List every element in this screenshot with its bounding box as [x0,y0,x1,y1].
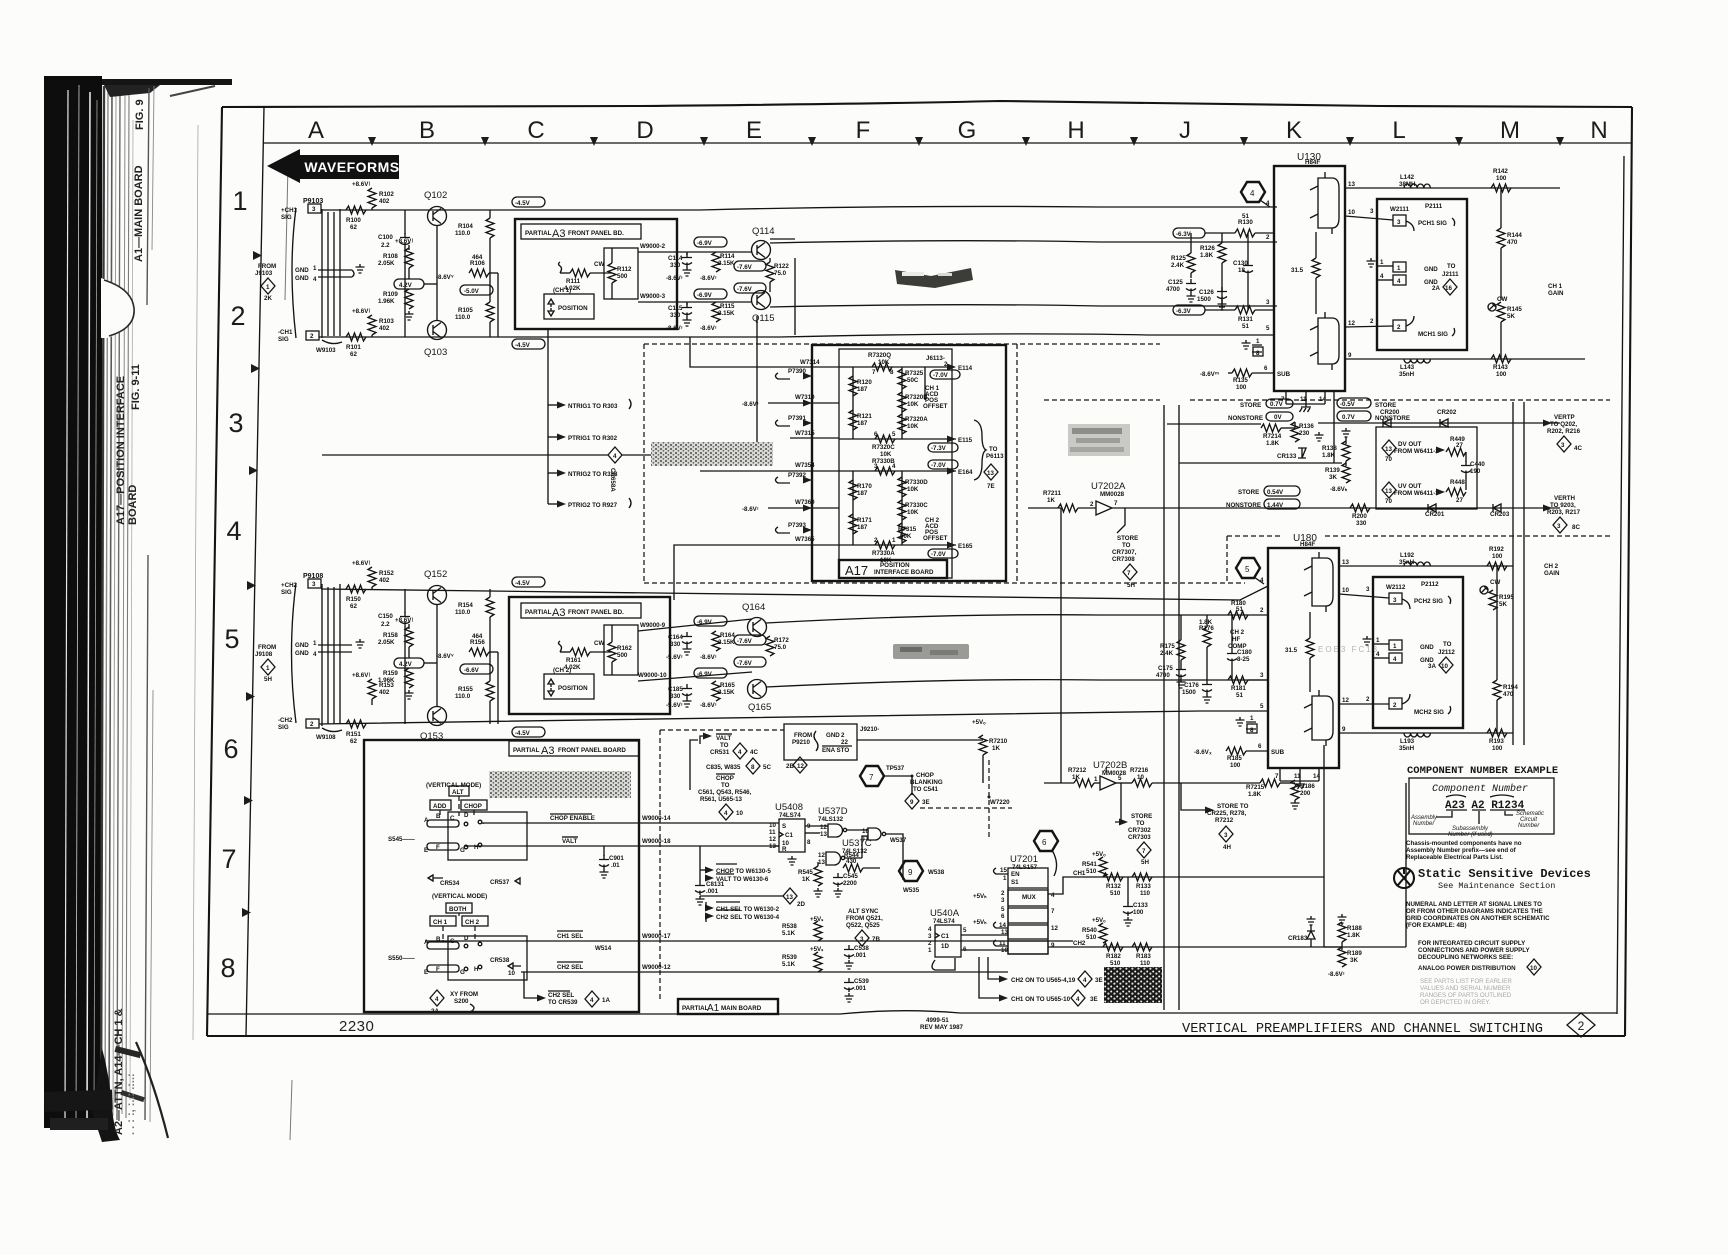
svg-text:3: 3 [1001,897,1005,904]
svg-text:3: 3 [1266,299,1270,306]
svg-text:8: 8 [807,839,811,846]
svg-text:10: 10 [862,828,869,835]
svg-text:100: 100 [1496,175,1507,182]
svg-text:E164: E164 [958,469,973,476]
svg-text:R126: R126 [1200,245,1215,252]
CH2 row [961,917,1406,947]
section: U130 + P2111 [1166,152,1585,422]
transistor Q102 [424,190,447,226]
svg-text:R541: R541 [1082,861,1097,868]
svg-text:4: 4 [590,997,594,1004]
svg-text:GND: GND [295,267,309,274]
svg-text:3: 3 [312,581,316,588]
svg-text:A3: A3 [541,745,554,757]
svg-text:62: 62 [350,738,357,745]
svg-text:R186: R186 [1300,783,1315,790]
static sensitive [1394,867,1591,891]
svg-text:51: 51 [1236,692,1243,699]
svg-text:-7.3V: -7.3V [931,445,947,452]
A17 inner board [839,349,952,578]
node -4.5V top [512,197,545,207]
svg-text:R7330D: R7330D [905,479,928,486]
resistor R136 [1291,422,1314,442]
svg-text:C180: C180 [1237,649,1252,656]
svg-text:F: F [856,117,871,144]
svg-text:35nH: 35nH [1399,371,1415,378]
svg-text:.001: .001 [854,985,867,992]
svg-text:R142: R142 [1493,168,1508,175]
svg-text:CHOP: CHOP [716,775,734,782]
svg-text:R138: R138 [1322,445,1337,452]
svg-text:402: 402 [379,198,390,205]
svg-text:FIG. 9-11: FIG. 9-11 [130,364,142,410]
U130 internal bottom half [1310,312,1339,370]
svg-text:-8.6Vʴ: -8.6Vʴ [742,401,759,408]
svg-text:F: F [436,844,440,851]
resistor R7330C [898,500,928,520]
svg-text:CH2 SEL TO W6130-4: CH2 SEL TO W6130-4 [716,914,780,921]
store sense box [1376,427,1477,509]
svg-text:CR201: CR201 [1425,511,1445,518]
capacitor C8131 [695,846,725,905]
svg-text:8: 8 [220,953,235,983]
signal VERTP [1543,414,1582,452]
svg-text:110: 110 [1140,890,1151,897]
svg-text:187: 187 [857,524,868,531]
svg-text:(CH 2): (CH 2) [553,667,571,674]
svg-text:-7.0V: -7.0V [931,462,947,469]
svg-text:A: A [308,117,324,144]
board label [509,741,639,757]
svg-text:12: 12 [1342,697,1349,704]
svg-text:TO: TO [1122,542,1131,549]
svg-text:J: J [1179,117,1191,144]
svg-text:100: 100 [1492,553,1503,560]
wire R7214 feed [1167,391,1342,463]
svg-text:CH2 SEL: CH2 SEL [548,992,574,999]
svg-text:510: 510 [1110,960,1121,967]
svg-text:-4.5V: -4.5V [515,730,531,737]
svg-text:4: 4 [724,810,728,817]
switch S545 [388,812,527,860]
svg-text:12: 12 [1051,925,1058,932]
svg-text:51: 51 [1236,606,1243,613]
svg-text:9: 9 [910,799,914,806]
inductor L192 [1399,552,1430,566]
W9000-9 wire [638,619,752,631]
svg-text:-4.5V: -4.5V [515,200,531,207]
resistor R115 [712,302,735,322]
svg-text:200: 200 [1300,790,1311,797]
svg-text:FROM: FROM [258,644,276,651]
svg-text:13: 13 [987,470,994,477]
svg-text:4: 4 [1397,278,1401,285]
svg-text:R193: R193 [1489,738,1504,745]
svg-text:CR225, R278,: CR225, R278, [1207,810,1246,817]
svg-text:+5Vₒ: +5Vₒ [1092,851,1106,858]
svg-text:R172: R172 [774,637,789,644]
svg-text:-8.6V ₓ: -8.6V ₓ [1194,749,1212,756]
svg-text:3: 3 [1393,597,1397,604]
NONSTORE 0V oval [1228,412,1293,422]
svg-text:OR DEPICTED IN GREY.: OR DEPICTED IN GREY. [1420,999,1491,1006]
svg-text:-CH1: -CH1 [278,329,293,336]
svg-text:1K: 1K [1047,497,1055,504]
+5VG R7210 [857,719,1008,783]
svg-text:R144: R144 [1507,232,1522,239]
svg-text:R181: R181 [1231,685,1246,692]
main frame [207,101,1632,1036]
svg-text:R7320C: R7320C [872,444,895,451]
svg-text:VALT: VALT [716,735,731,742]
wires U540A to U7201 [961,935,1008,950]
bus Q165 to U180 [766,680,1268,687]
capacitor C100 [378,210,410,337]
svg-text:-8.6Vʴ: -8.6Vʴ [700,702,717,709]
svg-text:CR133: CR133 [1277,453,1297,460]
svg-text:0V: 0V [1274,414,1282,421]
svg-text:UV OUT: UV OUT [1398,483,1422,490]
from P9210 box [784,724,857,773]
pin6 SUB / R135 [1200,365,1291,391]
svg-text:P6113: P6113 [986,453,1004,460]
svg-text:5: 5 [1245,565,1250,574]
svg-text:STORE: STORE [1117,535,1138,542]
svg-text:POSITION: POSITION [558,685,588,692]
svg-text:1.44V: 1.44V [1267,502,1284,509]
svg-text:74LS132: 74LS132 [818,816,844,823]
pot R145 CH1 GAIN [1488,283,1564,359]
bottom title [339,1013,1595,1037]
svg-text:TO 9203,: TO 9203, [1550,502,1576,509]
diode CR538 [490,957,521,977]
svg-text:FOR INTEGRATED CIRCUIT SUPPLY: FOR INTEGRATED CIRCUIT SUPPLY [1418,940,1526,947]
svg-text:INTERFACE BOARD: INTERFACE BOARD [874,569,934,576]
svg-text:402: 402 [379,325,390,332]
connector P7393 [776,522,813,534]
svg-text:-4.5V: -4.5V [515,342,531,349]
svg-text:L192: L192 [1400,552,1415,559]
svg-text:-5.6Vʴ: -5.6Vʴ [666,702,683,709]
svg-text:5: 5 [1118,775,1122,782]
svg-text:2.05K: 2.05K [378,639,395,646]
svg-text:Chassis-mounted components hav: Chassis-mounted components have no [1406,840,1522,847]
svg-text:8C: 8C [1572,524,1580,531]
node -6.9V lower [694,668,727,678]
resistor R143 [1491,355,1511,378]
XY FROM S200 [430,990,478,1015]
board label [521,603,641,619]
svg-text:FROM: FROM [794,732,812,739]
svg-text:-5.0V: -5.0V [464,288,480,295]
svg-text:5: 5 [224,624,239,654]
capacitor C539 [844,978,869,1002]
svg-text:CW: CW [1490,579,1500,586]
resistor R126 [1200,233,1226,310]
svg-text:2: 2 [230,301,245,331]
svg-text:W7354: W7354 [795,462,815,469]
svg-text:9: 9 [1051,942,1055,949]
top rail ch2 [321,586,1268,600]
svg-text:R139: R139 [1325,467,1340,474]
bus Q115 to U130 pin3 [770,305,1277,307]
resistor R125 [1171,233,1195,278]
svg-text:402: 402 [379,577,390,584]
svg-text:3A: 3A [1428,663,1436,670]
W9000-3 wire [638,293,752,302]
double vertical bus K3-K8 [1164,405,1179,1010]
signal PTRIG2 [548,498,631,509]
wire pin13 [1345,187,1560,189]
svg-text:13: 13 [1342,559,1349,566]
svg-text:75.0: 75.0 [774,270,787,277]
W7220 [920,760,1012,840]
CH1 row [1048,851,1324,894]
resistor R7320B [898,392,928,412]
svg-text:2.4K: 2.4K [1171,262,1185,269]
svg-text:VERTH: VERTH [1554,495,1576,502]
hexagon 9 [899,861,945,894]
node -6.9V upper [694,616,727,626]
op-amp U7202B [1093,760,1127,790]
signal C835 W835 [706,758,771,774]
offset labels ch2 [923,517,948,542]
node -6.3V upper [1173,228,1205,238]
dashed boundary [1227,536,1610,583]
svg-text:OFFSET: OFFSET [923,535,948,542]
svg-text:4.2V: 4.2V [399,661,413,668]
resistor R106 [436,254,498,281]
svg-text:F: F [436,966,440,973]
svg-text:3: 3 [1561,442,1565,449]
capacitor C150 [378,589,410,724]
svg-text:1: 1 [266,284,270,291]
wire Q152-Q153 [436,605,438,706]
svg-text:A3: A3 [552,228,565,240]
svg-text:CR537: CR537 [490,879,510,886]
resistor R7330B [872,458,896,475]
svg-text:5: 5 [1260,703,1264,710]
svg-text:-4.5V: -4.5V [515,580,531,587]
svg-text:R183: R183 [1136,953,1151,960]
svg-text:5: 5 [1001,906,1005,913]
internal resistor 31.5 [1291,232,1320,314]
svg-text:W535: W535 [903,887,920,894]
svg-text:B: B [436,813,441,820]
svg-text:1: 1 [1256,338,1260,345]
svg-text:W538: W538 [928,869,945,876]
transistor Q153 [420,707,447,743]
svg-text:NUMERAL AND LETTER AT SIGNAL L: NUMERAL AND LETTER AT SIGNAL LINES TO [1406,901,1542,908]
resistor R7215 [1246,779,1295,798]
svg-text:6: 6 [874,431,878,438]
svg-text:7: 7 [1114,500,1118,507]
svg-text:CH 1: CH 1 [433,919,448,926]
resistor R7320Q [868,352,894,376]
resistor R131 [1205,306,1274,330]
svg-text:W7314: W7314 [800,359,820,366]
svg-text:2: 2 [1366,696,1370,703]
svg-text:FRONT PANEL BD.: FRONT PANEL BD. [568,609,624,616]
bottom border [207,1035,1625,1037]
capacitor C125 [1166,279,1196,302]
grid note [1406,901,1550,929]
svg-text:3: 3 [1260,672,1264,679]
section: ch1 input (A1-B2) [255,181,1277,358]
svg-text:CH 1: CH 1 [1548,283,1563,290]
resistor R182 [1103,943,1123,967]
svg-text:100: 100 [1230,762,1241,769]
svg-text:TO: TO [721,782,730,789]
svg-text:12: 12 [1348,320,1355,327]
signal PTRIG1 [548,434,618,443]
svg-text:2: 2 [1397,324,1401,331]
W9000-10 wire [638,672,752,681]
resistor R539 [782,946,824,972]
node -4.5V bottom [512,339,545,349]
resistor R193 [1487,729,1507,752]
internal resistor 31.5 [1285,612,1314,692]
resistor R7330A [872,537,896,564]
pin 1/8 stubs [1236,715,1258,734]
node -4.5V bottom [512,727,545,737]
svg-text:PTRIG1 TO R302: PTRIG1 TO R302 [568,435,618,442]
svg-text:50K: 50K [900,533,912,540]
section: bottom-left A3 mode board [364,740,1073,1015]
svg-text:4700: 4700 [1166,286,1180,293]
svg-text:R7214: R7214 [1263,433,1282,440]
signal CH1 ON [979,957,1098,1006]
svg-text:470: 470 [1503,691,1514,698]
svg-text:4: 4 [226,516,241,546]
-0.5V STORE oval [1337,398,1396,409]
0.7V NONSTORE oval [1337,411,1410,422]
wire Q102-Q103 [436,226,438,321]
svg-text:GND: GND [826,732,840,739]
svg-text:R202, R216: R202, R216 [1547,428,1581,435]
svg-text:R158: R158 [383,632,398,639]
svg-text:3: 3 [874,463,878,470]
resistor R183 [1132,943,1152,967]
resistor R151 [346,720,366,745]
svg-text:1500: 1500 [1182,689,1196,696]
svg-text:8: 8 [751,764,755,771]
resistor R176 [1199,615,1214,680]
svg-text:ALT: ALT [452,789,464,796]
svg-text:CR202: CR202 [1437,409,1457,416]
svg-text:4: 4 [1393,656,1397,663]
svg-text:CR534: CR534 [440,880,460,887]
svg-text:-6.9V: -6.9V [697,240,713,247]
svg-text:10: 10 [769,822,776,829]
svg-text:R189: R189 [1347,950,1362,957]
svg-text:3E: 3E [1095,977,1103,984]
svg-text:WAVEFORMS: WAVEFORMS [304,159,399,175]
svg-text:VALT: VALT [562,838,577,845]
offset labels ch1 [923,385,948,410]
svg-text:J9210-: J9210- [860,726,879,733]
svg-text:14: 14 [999,922,1006,929]
svg-text:R104: R104 [458,223,473,230]
svg-text:C1: C1 [941,933,949,940]
diode CR202 [1437,409,1457,427]
svg-text:CR183: CR183 [1288,935,1308,942]
node E165 [947,542,973,551]
transistor Q152 [424,569,447,605]
wire pin10 to P2112 [1339,586,1389,598]
svg-text:FROM W6411-2: FROM W6411-2 [1394,448,1439,455]
svg-text:8-25: 8-25 [1237,656,1250,663]
svg-text:74LS74: 74LS74 [933,918,955,925]
svg-text:3K: 3K [1329,474,1337,481]
svg-text:6: 6 [1258,743,1262,750]
svg-text:FIG. 9: FIG. 9 [134,99,146,130]
signal CH1 SEL [425,931,1073,952]
svg-text:-8.6V ᵐ: -8.6V ᵐ [1200,371,1219,378]
diode CR200 [1380,409,1400,427]
svg-text:A1—MAIN BOARD: A1—MAIN BOARD [133,165,145,262]
svg-text:-7.0V: -7.0V [931,551,947,558]
svg-text:W9000-18: W9000-18 [642,838,671,845]
pot sub-box [604,625,638,675]
svg-text:1.8K: 1.8K [1199,619,1213,626]
svg-text:R145: R145 [1507,306,1522,313]
node -7.6V upper [734,635,766,645]
svg-text:3: 3 [1397,219,1401,226]
component number example [1407,765,1558,838]
wire input bus [1058,508,1061,783]
svg-text:4: 4 [1376,651,1380,658]
svg-text:FRONT PANEL BD.: FRONT PANEL BD. [568,230,624,237]
svg-text:R152: R152 [379,570,394,577]
W9000-2 wire [638,243,752,252]
svg-text:VERTICAL PREAMPLIFIERS AND CHA: VERTICAL PREAMPLIFIERS AND CHANNEL SWITC… [1182,1021,1543,1037]
svg-text:Assembly Number prefix—see end: Assembly Number prefix—see end of [1406,847,1517,854]
svg-text:ANALOG POWER DISTRIBUTION: ANALOG POWER DISTRIBUTION [1418,965,1516,972]
R158 / 4.2V / R159 chain [378,617,437,699]
resistor R448 [1446,479,1466,504]
resistor R194 [1493,566,1518,733]
svg-text:2: 2 [874,537,878,544]
svg-text:70: 70 [1385,498,1392,505]
svg-text:6: 6 [223,734,238,764]
svg-text:MUX: MUX [1022,894,1037,901]
pot sub-box [604,248,638,299]
svg-text:POSITION: POSITION [558,305,588,312]
W537 wire [886,834,907,880]
svg-text:See Maintenance Section: See Maintenance Section [1438,881,1555,891]
svg-text:R103: R103 [379,318,394,325]
svg-text:27: 27 [1456,497,1463,504]
resistor R544 [843,852,880,872]
diode CR201 [1425,504,1445,518]
svg-text:2.15K: 2.15K [718,639,735,646]
board outline A3 second [509,597,670,714]
svg-text:27: 27 [1456,442,1463,449]
trigger bus line [322,447,770,492]
svg-text:R102: R102 [379,191,394,198]
svg-text:CR658A: CR658A [609,468,616,492]
svg-text:R154: R154 [458,602,473,609]
resistor R165 [712,681,735,701]
svg-text:C130: C130 [1233,260,1248,267]
svg-text:100: 100 [1133,909,1144,916]
hexagon 7 TP537 [860,765,914,786]
U5408 [769,802,811,865]
capacitor C114 [668,252,692,276]
wire W7360 [742,499,839,513]
smudge blob ch2 [893,644,969,659]
